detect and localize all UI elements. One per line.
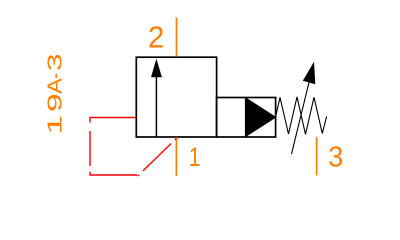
svg-text:3: 3 [45, 53, 67, 71]
svg-text:-: - [45, 73, 67, 78]
svg-text:2: 2 [148, 20, 165, 55]
svg-text:1: 1 [189, 142, 201, 172]
svg-text:3: 3 [328, 142, 343, 174]
svg-text:1: 1 [45, 115, 67, 135]
svg-text:9: 9 [45, 93, 67, 112]
svg-text:A: A [45, 77, 67, 93]
